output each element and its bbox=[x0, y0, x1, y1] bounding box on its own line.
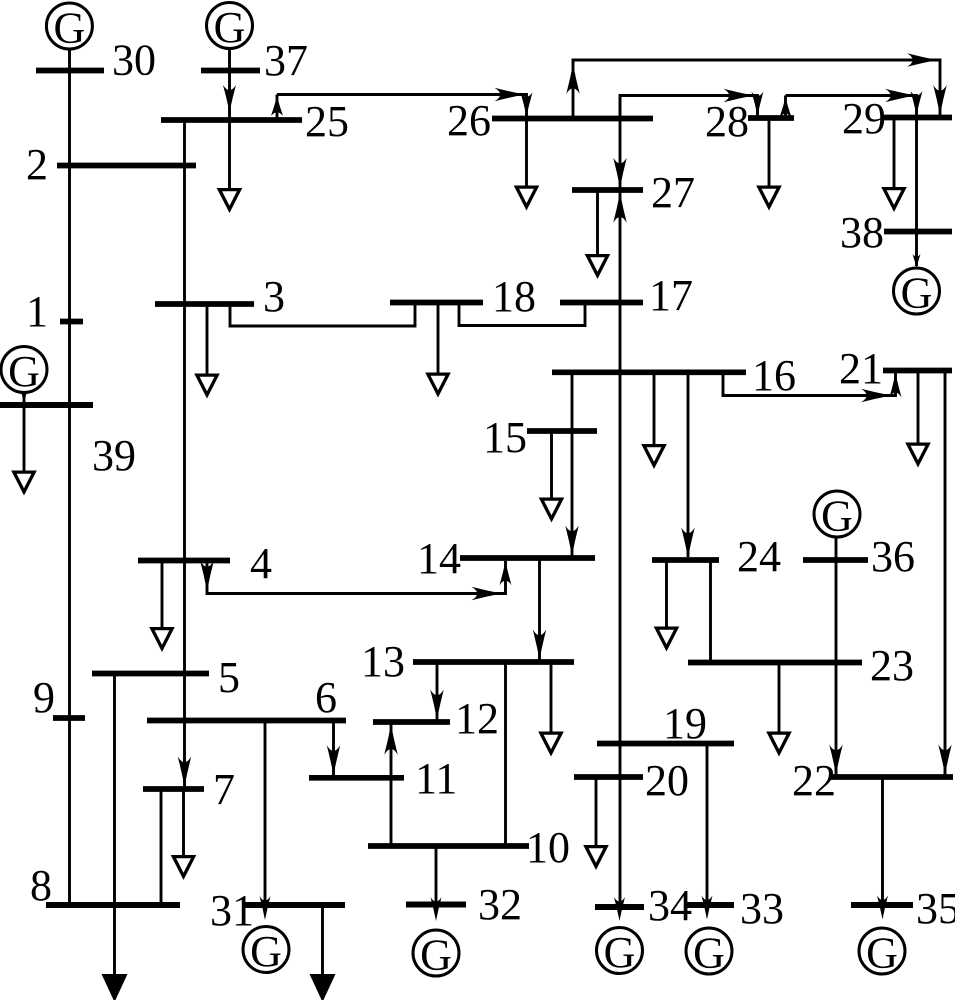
bus 15 bbox=[527, 428, 597, 434]
bus 33 bbox=[686, 902, 734, 908]
label bus 1 bbox=[26, 287, 48, 336]
svg-text:8: 8 bbox=[30, 861, 52, 910]
load at bus 4 bbox=[149, 561, 175, 653]
bus 23 bbox=[688, 660, 862, 666]
bus 39 bbox=[0, 402, 93, 408]
label bus 28 bbox=[705, 97, 749, 146]
bus 37 bbox=[201, 68, 260, 74]
bus 4 bbox=[138, 558, 230, 564]
svg-text:5: 5 bbox=[218, 653, 240, 702]
wire: generator 37 to bus 25 bbox=[228, 45, 231, 120]
wire: line 7-8 bbox=[160, 789, 163, 905]
wire: line 10-32 bbox=[435, 846, 438, 905]
load at bus 26 bbox=[514, 119, 540, 211]
svg-text:10: 10 bbox=[526, 823, 570, 872]
label bus 36 bbox=[871, 532, 915, 581]
arrow from G39 into bus 39 bbox=[20, 389, 28, 403]
load at bus 29 bbox=[881, 118, 907, 213]
svg-text:22: 22 bbox=[792, 756, 836, 805]
wire: line 22-35 bbox=[881, 777, 884, 906]
bus 24 bbox=[652, 557, 719, 563]
wire: long vertical 26-27-17-16-19-20-34 bbox=[619, 96, 622, 908]
label bus 5 bbox=[218, 653, 240, 702]
label bus 35 bbox=[916, 884, 955, 933]
bus 19 bbox=[597, 741, 734, 747]
label bus 32 bbox=[478, 880, 522, 929]
label bus 34 bbox=[648, 881, 692, 930]
bus 7 bbox=[143, 786, 204, 792]
arrow right on 4-14 bbox=[472, 587, 502, 601]
generator G at bus 38 bbox=[894, 268, 940, 318]
wire: line 4-14 bbox=[207, 561, 506, 594]
bus 27 bbox=[572, 187, 643, 193]
arrow right on 25-26 bbox=[495, 88, 525, 102]
svg-text:24: 24 bbox=[737, 532, 781, 581]
load at bus 15 bbox=[539, 431, 565, 523]
bus 28 bbox=[748, 115, 794, 121]
wire: line 6-31 bbox=[264, 721, 267, 907]
wire: line 3-18 bbox=[230, 303, 415, 326]
generator G at bus 32 bbox=[413, 930, 459, 980]
bus 12 bbox=[373, 719, 450, 725]
bus 17 bbox=[560, 300, 643, 306]
arrow through bus 33 to G33 bbox=[702, 896, 713, 920]
svg-text:7: 7 bbox=[213, 765, 235, 814]
svg-text:G: G bbox=[901, 269, 933, 318]
svg-text:15: 15 bbox=[483, 413, 527, 462]
arrow through bus 31 to G31 bbox=[260, 896, 271, 920]
svg-text:17: 17 bbox=[649, 271, 693, 320]
arrow down into bus 13 bbox=[533, 630, 547, 660]
label bus 39 bbox=[92, 431, 136, 480]
generator G at bus 30 bbox=[46, 3, 92, 53]
svg-text:G: G bbox=[821, 492, 853, 541]
svg-text:13: 13 bbox=[361, 637, 405, 686]
label bus 12 bbox=[455, 694, 499, 743]
svg-text:3: 3 bbox=[263, 272, 285, 321]
arrow right on 28-29 bbox=[885, 89, 915, 103]
arrow down into bus 29 at x940 bbox=[933, 85, 947, 115]
wire: 25-2-3-4-5-6-7 vertical chain bbox=[183, 120, 186, 787]
arrow down into bus 27 bbox=[613, 158, 627, 188]
arrow down into bus 22 from 23 bbox=[829, 745, 843, 775]
label bus 10 bbox=[526, 823, 570, 872]
bus 21 bbox=[883, 368, 952, 374]
label bus 16 bbox=[752, 351, 796, 400]
wire: line 13-10 bbox=[504, 662, 507, 846]
load at bus 3 bbox=[194, 304, 220, 399]
arrow up on 28-29 stub bbox=[780, 98, 792, 118]
wire: line 21-22 bbox=[944, 371, 947, 775]
bus 13 bbox=[413, 659, 574, 665]
svg-text:16: 16 bbox=[752, 351, 796, 400]
arrow down into bus 24 bbox=[681, 528, 695, 558]
bus 30 bbox=[36, 68, 104, 74]
bus 34 bbox=[595, 904, 644, 910]
wire: line 36-23-22 bbox=[835, 538, 838, 775]
load at bus 31 (solid) bbox=[310, 905, 336, 1000]
wire: line 19-33 bbox=[706, 744, 709, 907]
bus 35 bbox=[851, 902, 913, 908]
label bus 27 bbox=[651, 168, 695, 217]
arrow up into bus 14 bbox=[500, 561, 512, 585]
label bus 29 bbox=[842, 94, 886, 143]
wire: line 25-26 bbox=[277, 95, 527, 121]
arrow up into bus 21 bbox=[890, 373, 902, 397]
arrow down into bus 22 from 21 bbox=[938, 745, 952, 775]
load at bus 24 bbox=[654, 560, 680, 652]
wire: G39 stub to bus 39 bbox=[23, 391, 26, 402]
bus 36 bbox=[803, 557, 868, 563]
generator G at bus 39 bbox=[1, 347, 47, 397]
arrow through bus 35 to G35 bbox=[877, 896, 888, 920]
svg-text:G: G bbox=[214, 3, 246, 52]
svg-text:21: 21 bbox=[839, 344, 883, 393]
arrow down into bus 11 bbox=[327, 745, 341, 775]
svg-text:27: 27 bbox=[651, 168, 695, 217]
svg-text:G: G bbox=[420, 931, 452, 980]
svg-text:25: 25 bbox=[305, 97, 349, 146]
svg-text:35: 35 bbox=[916, 884, 955, 933]
load at bus 23 bbox=[766, 663, 792, 757]
label bus 21 bbox=[839, 344, 883, 393]
svg-text:14: 14 bbox=[417, 534, 461, 583]
load at bus 20 bbox=[583, 777, 609, 870]
wire: line 18-17 bbox=[459, 303, 585, 326]
svg-text:28: 28 bbox=[705, 97, 749, 146]
wire: line 14-13 bbox=[538, 558, 541, 660]
label bus 9 bbox=[33, 673, 55, 722]
generator G at bus 36 bbox=[814, 491, 860, 541]
svg-text:38: 38 bbox=[840, 208, 884, 257]
svg-text:G: G bbox=[693, 929, 725, 978]
bus 14 bbox=[460, 555, 595, 561]
bus 29 bbox=[884, 115, 952, 121]
arrow up on 25-26 stub bbox=[271, 96, 283, 116]
svg-text:20: 20 bbox=[645, 756, 689, 805]
label bus 2 bbox=[26, 140, 48, 189]
bus 22 bbox=[831, 774, 953, 780]
load at bus 18 bbox=[425, 303, 451, 398]
load at bus 39 bbox=[11, 405, 37, 496]
bus 9 bbox=[53, 715, 85, 721]
generator G at bus 34 bbox=[597, 928, 643, 978]
arrow down into bus 28 bbox=[752, 92, 764, 116]
wire: line 13-12 bbox=[436, 662, 439, 720]
bus 1 bbox=[60, 319, 83, 325]
wire: line 12-11-10 bbox=[390, 722, 393, 846]
arrow up into bus 27 bbox=[613, 193, 627, 223]
load at bus 7 bbox=[171, 789, 197, 880]
load at bus 21 bbox=[905, 371, 931, 468]
label bus 20 bbox=[645, 756, 689, 805]
svg-text:1: 1 bbox=[26, 287, 48, 336]
bus 31 bbox=[242, 902, 345, 908]
wire: line 28-29 bbox=[786, 96, 917, 119]
arrow right on 26-28 bbox=[724, 89, 754, 103]
bus 16 bbox=[552, 369, 746, 375]
bus 5 bbox=[92, 671, 209, 677]
svg-text:31: 31 bbox=[210, 886, 254, 935]
bus 6 bbox=[147, 718, 346, 724]
arrow down into bus 29 at x916 bbox=[911, 91, 923, 115]
arrow right on 26-29 bbox=[907, 53, 937, 67]
wire: line 29-38-G38 bbox=[915, 118, 918, 267]
svg-text:29: 29 bbox=[842, 94, 886, 143]
label bus 4 bbox=[250, 539, 272, 588]
bus 11 bbox=[309, 775, 404, 781]
arrow up into bus 12 bbox=[384, 725, 398, 755]
svg-text:11: 11 bbox=[415, 754, 457, 803]
load at bus 13 bbox=[538, 662, 564, 757]
label bus 8 bbox=[30, 861, 52, 910]
label bus 38 bbox=[840, 208, 884, 257]
generator G at bus 35 bbox=[859, 928, 905, 978]
arrow through bus 32 to G32 bbox=[431, 897, 442, 921]
label bus 7 bbox=[213, 765, 235, 814]
wire: line 6-11 bbox=[332, 721, 335, 776]
label bus 23 bbox=[870, 641, 914, 690]
arrow down into bus 12 bbox=[430, 690, 444, 720]
bus 3 bbox=[155, 301, 254, 307]
wire: line 16-15-14 bbox=[571, 372, 574, 555]
bus 10 bbox=[368, 843, 529, 849]
label bus 30 bbox=[112, 36, 156, 85]
wire: line 23-24 bbox=[709, 560, 712, 663]
arrow through bus 34 to G34 bbox=[614, 897, 625, 921]
bus 2 bbox=[57, 163, 196, 169]
wire: line 26-29 top route bbox=[573, 60, 940, 119]
svg-text:32: 32 bbox=[478, 880, 522, 929]
bus 32 bbox=[406, 902, 466, 908]
label bus 22 bbox=[792, 756, 836, 805]
load at bus 25 bbox=[217, 120, 243, 213]
bus 8 bbox=[46, 902, 180, 908]
arrow into bus 25 from G37 bbox=[223, 85, 236, 112]
label bus 6 bbox=[315, 673, 337, 722]
arrow right on 16-21 bbox=[861, 389, 891, 403]
load at bus 27 bbox=[585, 189, 611, 280]
bus 38 bbox=[884, 229, 952, 235]
label bus 26 bbox=[447, 96, 491, 145]
svg-text:G: G bbox=[250, 927, 282, 976]
svg-text:34: 34 bbox=[648, 881, 692, 930]
svg-text:19: 19 bbox=[663, 699, 707, 748]
arrow down into bus 7 bbox=[178, 757, 192, 787]
generator G at bus 37 bbox=[207, 3, 253, 53]
load at bus 28 bbox=[756, 118, 782, 211]
svg-text:9: 9 bbox=[33, 673, 55, 722]
arrow down on 4-14 at bus 4 end bbox=[200, 561, 214, 591]
bus 18 bbox=[390, 300, 483, 306]
label bus 37 bbox=[264, 36, 308, 85]
bus 20 bbox=[574, 774, 643, 780]
label bus 24 bbox=[737, 532, 781, 581]
svg-text:G: G bbox=[604, 928, 636, 977]
label bus 15 bbox=[483, 413, 527, 462]
svg-text:G: G bbox=[866, 929, 898, 978]
arrow into G38 bbox=[913, 254, 921, 268]
svg-text:26: 26 bbox=[447, 96, 491, 145]
svg-text:37: 37 bbox=[264, 36, 308, 85]
svg-text:39: 39 bbox=[92, 431, 136, 480]
svg-text:12: 12 bbox=[455, 694, 499, 743]
label bus 25 bbox=[305, 97, 349, 146]
svg-text:36: 36 bbox=[871, 532, 915, 581]
arrow down into bus 14 bbox=[565, 526, 579, 556]
svg-text:18: 18 bbox=[492, 272, 536, 321]
bus 26 bbox=[492, 116, 653, 122]
generator G at bus 33 bbox=[686, 928, 732, 978]
svg-text:30: 30 bbox=[112, 36, 156, 85]
svg-text:G: G bbox=[54, 4, 86, 53]
wire: line 26-28 bbox=[620, 96, 758, 119]
label bus 13 bbox=[361, 637, 405, 686]
label bus 33 bbox=[740, 884, 784, 933]
label bus 17 bbox=[649, 271, 693, 320]
bus 25 bbox=[161, 117, 302, 123]
load at bus 16 bbox=[641, 372, 667, 469]
svg-text:23: 23 bbox=[870, 641, 914, 690]
wire: line 16-24 bbox=[687, 372, 690, 557]
label bus 19 bbox=[663, 699, 707, 748]
label bus 31 bbox=[210, 886, 254, 935]
svg-text:2: 2 bbox=[26, 140, 48, 189]
label bus 3 bbox=[263, 272, 285, 321]
svg-text:6: 6 bbox=[315, 673, 337, 722]
svg-text:G: G bbox=[8, 347, 40, 396]
svg-text:4: 4 bbox=[250, 539, 272, 588]
label bus 14 bbox=[417, 534, 461, 583]
svg-text:33: 33 bbox=[740, 884, 784, 933]
generator G at bus 31 bbox=[243, 927, 289, 977]
label bus 18 bbox=[492, 272, 536, 321]
label bus 11 bbox=[415, 754, 457, 803]
wire: line 5-8 bbox=[113, 674, 116, 906]
arrow up on 26-29 stub bbox=[566, 64, 580, 94]
load at bus 8 (solid) bbox=[102, 905, 128, 1000]
wire: G30-30-2-1-39-9-8 vertical chain bbox=[68, 48, 71, 905]
wire: line 16-21 bbox=[723, 371, 896, 396]
arrow down into bus 26 bbox=[521, 92, 533, 116]
